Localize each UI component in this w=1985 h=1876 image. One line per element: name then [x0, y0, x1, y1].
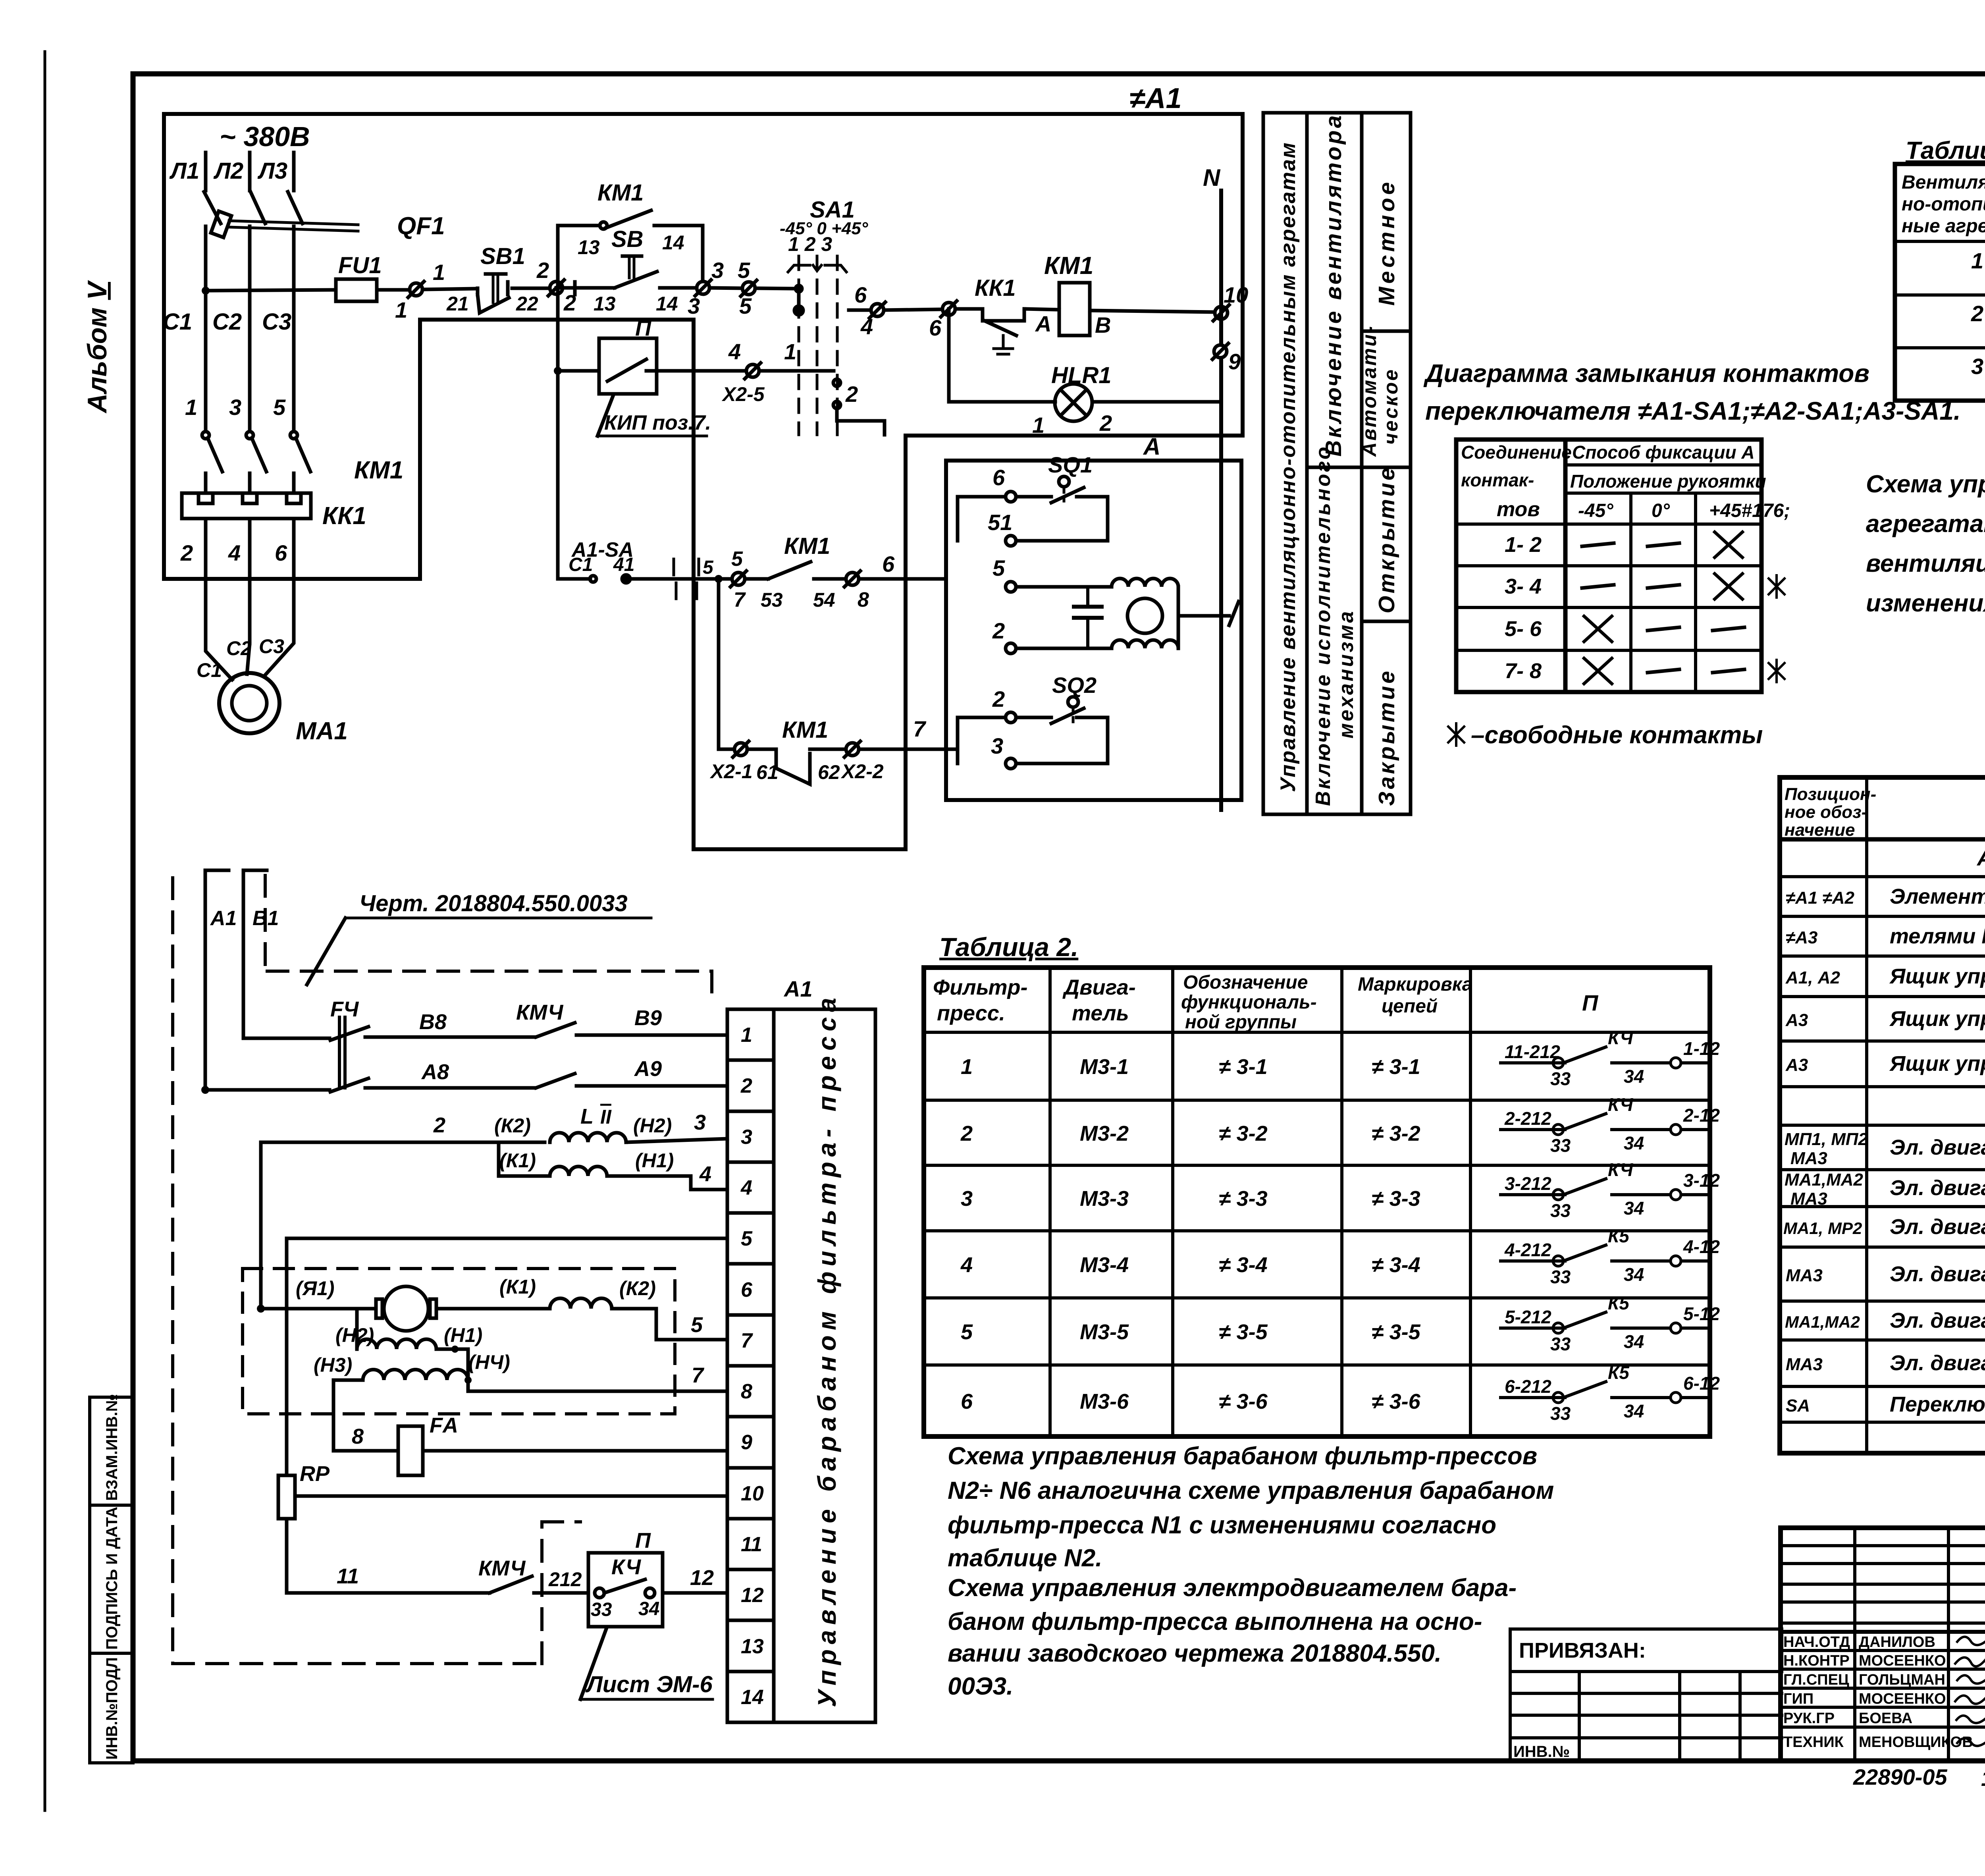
svg-text:34: 34: [1624, 1133, 1644, 1153]
wire phase Л1: [204, 152, 208, 191]
svg-text:А3: А3: [1785, 1010, 1808, 1030]
svg-text:7: 7: [741, 1329, 753, 1352]
svg-text:А1: А1: [210, 907, 237, 930]
capacitor: [1086, 587, 1089, 607]
svg-text:≠ 3-2: ≠ 3-2: [1372, 1122, 1420, 1145]
svg-text:4: 4: [228, 540, 241, 565]
lower cabinet dashed boundary: [173, 875, 712, 1664]
wire B1 feed: [243, 870, 279, 1038]
svg-text:Таблица 1.: Таблица 1.: [1906, 137, 1985, 164]
connector point 2: [536, 258, 576, 315]
svg-text:Лист ЭМ-6: Лист ЭМ-6: [585, 1672, 713, 1697]
svg-text:Открытие: Открытие: [1374, 465, 1399, 613]
svg-text:3: 3: [1971, 354, 1983, 379]
svg-text:ТЕХНИК: ТЕХНИК: [1783, 1734, 1844, 1751]
wire A8 line: [201, 1060, 535, 1094]
thermal contact KK1: [975, 275, 1059, 354]
svg-text:вентиляционно-отопительным агр: вентиляционно-отопительным агрегатом А1 …: [1866, 550, 1985, 577]
wire N: [1203, 164, 1221, 810]
title block: [1781, 1528, 1985, 1761]
svg-text:КМ1: КМ1: [597, 180, 644, 206]
svg-text:телями МА1, МА2, МА3.: телями МА1, МА2, МА3.: [1890, 924, 1985, 948]
svg-text:7- 8: 7- 8: [1505, 659, 1542, 683]
thermal relay KK1 heaters: [180, 493, 366, 619]
parts rows: [1783, 845, 1985, 1416]
svg-text:≠А1: ≠А1: [1129, 83, 1182, 114]
svg-text:QF1: QF1: [397, 212, 445, 240]
contact diagram title: [1423, 359, 1961, 425]
svg-text:33: 33: [591, 1599, 612, 1620]
svg-text:5: 5: [961, 1320, 973, 1344]
contact KM4 on B line: [516, 1001, 727, 1037]
svg-text:Х2-1: Х2-1: [709, 760, 753, 783]
svg-text:≠ 3-1: ≠ 3-1: [1372, 1055, 1420, 1079]
svg-text:4: 4: [740, 1176, 752, 1199]
svg-text:3-12: 3-12: [1683, 1170, 1720, 1191]
connector X2-1: [709, 741, 776, 783]
svg-text:00Э3.: 00Э3.: [948, 1673, 1013, 1700]
contact diagram table: [1456, 440, 1761, 692]
svg-text:КМ1: КМ1: [784, 533, 830, 559]
vertical function table: [1263, 113, 1411, 814]
svg-text:Ящик управления Я5111-2474 УХЛ: Ящик управления Я5111-2474 УХЛ Ч: [1889, 964, 1985, 988]
svg-text:(Н2): (Н2): [335, 1324, 374, 1346]
svg-text:3: 3: [741, 1126, 752, 1149]
svg-text:М3-1: М3-1: [1080, 1055, 1129, 1079]
svg-text:5- 6: 5- 6: [1505, 617, 1542, 641]
svg-text:5-12: 5-12: [1683, 1303, 1720, 1324]
table 1: [1895, 137, 1985, 401]
svg-text:22: 22: [516, 293, 538, 315]
svg-text:12: 12: [1981, 1766, 1985, 1791]
svg-text:11: 11: [741, 1533, 762, 1556]
KIP position note: [597, 395, 711, 436]
svg-text:Автомати-: Автомати-: [1358, 325, 1380, 457]
drawing reference note: [307, 891, 651, 985]
svg-text:А8: А8: [421, 1060, 449, 1084]
circuit breaker QF1: [204, 192, 445, 431]
svg-text:5-212: 5-212: [1505, 1307, 1551, 1327]
svg-text:6: 6: [961, 1390, 973, 1413]
svg-text:13: 13: [741, 1635, 764, 1658]
free contacts note: [1448, 721, 1763, 749]
svg-text:0°: 0°: [1652, 500, 1670, 521]
svg-text:Х2-5: Х2-5: [721, 383, 765, 405]
svg-text:≠ 3-5: ≠ 3-5: [1219, 1320, 1268, 1344]
svg-text:КМЧ: КМЧ: [516, 1001, 564, 1024]
svg-text:4-12: 4-12: [1683, 1236, 1720, 1257]
drum motor armature: [257, 1276, 727, 1340]
svg-text:8: 8: [858, 588, 869, 611]
svg-text:14: 14: [741, 1686, 764, 1709]
inductor K1-H1 (to terminal 4): [499, 1142, 727, 1190]
svg-text:N: N: [1203, 164, 1221, 191]
svg-text:≠А3: ≠А3: [1786, 928, 1817, 947]
svg-text:пресс.: пресс.: [937, 1001, 1005, 1025]
svg-text:1: 1: [784, 339, 796, 364]
svg-text:функциональ-: функциональ-: [1181, 992, 1317, 1013]
svg-text:КЧ: КЧ: [1608, 1094, 1634, 1115]
svg-text:М3-5: М3-5: [1080, 1320, 1129, 1344]
svg-text:ные агрегаты: ные агрегаты: [1902, 216, 1985, 237]
svg-text:Ящик управления Я5111-2274 УХ: Ящик управления Я5111-2274 УХЛ Ч: [1889, 1007, 1985, 1031]
svg-text:2: 2: [845, 382, 858, 407]
svg-text:С3: С3: [262, 309, 291, 335]
signatures squiggles: [1955, 1636, 1985, 1746]
svg-text:переключателя ≠А1-SА1;≠А2-SА1;: переключателя ≠А1-SА1;≠А2-SА1;А3-SА1.: [1425, 397, 1961, 425]
table2 row 1: [961, 1028, 1720, 1089]
svg-text:КЧ: КЧ: [1608, 1028, 1634, 1048]
svg-text:Позицион-: Позицион-: [1785, 785, 1876, 804]
svg-text:П: П: [635, 315, 652, 340]
page left trim line: [44, 52, 46, 1810]
svg-text:33: 33: [1550, 1403, 1571, 1424]
svg-text:вании заводского чертежа 20188: вании заводского чертежа 2018804.550.: [948, 1640, 1442, 1667]
actuator box A: [946, 461, 1241, 800]
table2 row 5: [961, 1293, 1720, 1354]
svg-text:33: 33: [1550, 1068, 1571, 1089]
fuse F4: [330, 997, 359, 1088]
contact KM1 53-54: [745, 533, 846, 611]
terminal block A1: [727, 976, 813, 1722]
svg-text:КЧ: КЧ: [1608, 1159, 1634, 1180]
wire 5 long line (terminal 5): [289, 1237, 727, 1240]
svg-text:МА1,МА2: МА1,МА2: [1785, 1313, 1860, 1331]
svg-text:212: 212: [548, 1568, 582, 1591]
svg-text:≠ 3-3: ≠ 3-3: [1372, 1187, 1420, 1211]
svg-text:2: 2: [536, 258, 549, 283]
svg-text:6-12: 6-12: [1683, 1373, 1720, 1394]
svg-text:5: 5: [731, 548, 743, 571]
svg-text:33: 33: [1550, 1135, 1571, 1156]
svg-text:N2÷ N6 аналогична схеме управл: N2÷ N6 аналогична схеме управления бараб…: [948, 1477, 1554, 1504]
svg-text:МП1, МП2: МП1, МП2: [1785, 1130, 1868, 1149]
svg-text:Диаграмма замыкания контактов: Диаграмма замыкания контактов: [1423, 359, 1869, 388]
svg-text:К5: К5: [1608, 1362, 1630, 1383]
resistor RP: [278, 1238, 727, 1593]
svg-text:SВ: SВ: [611, 226, 644, 252]
svg-text:RР: RР: [300, 1462, 330, 1486]
svg-text:А: А: [1035, 311, 1051, 336]
device P (KIP): [554, 288, 834, 579]
svg-text:С1: С1: [163, 309, 192, 335]
svg-text:С2: С2: [212, 309, 242, 335]
svg-text:(К1): (К1): [499, 1149, 536, 1172]
svg-text:Эл. двигатель ЧАХ 71А2 ; 0,7: Эл. двигатель ЧАХ 71А2 ; 0,75 кВт.: [1890, 1215, 1985, 1239]
svg-text:МА3: МА3: [1786, 1266, 1823, 1285]
table2 row 6: [961, 1362, 1720, 1424]
signal lamp HLR1: [949, 309, 1221, 438]
svg-text:Черт. 2018804.550.0033: Черт. 2018804.550.0033: [359, 891, 628, 916]
svg-text:12: 12: [690, 1566, 714, 1590]
svg-text:SВ1: SВ1: [480, 243, 525, 269]
svg-text:Вентиляцион-: Вентиляцион-: [1902, 172, 1985, 193]
svg-text:≠ 3-2: ≠ 3-2: [1219, 1122, 1268, 1145]
contact KM4 on A line: [536, 1057, 727, 1088]
svg-text:2: 2: [433, 1113, 445, 1137]
svg-text:Схема управления вентиляционно: Схема управления вентиляционно-отопитель…: [1866, 470, 1985, 498]
svg-text:3-212: 3-212: [1505, 1173, 1551, 1194]
svg-text:12: 12: [741, 1584, 764, 1607]
svg-text:А1, А2: А1, А2: [1785, 968, 1840, 987]
svg-text:34: 34: [1624, 1331, 1644, 1352]
svg-text:3: 3: [961, 1187, 973, 1211]
wire 11 and contact KM4: [287, 1556, 588, 1593]
svg-text:В8: В8: [419, 1010, 447, 1034]
svg-text:1-12: 1-12: [1683, 1038, 1720, 1059]
svg-text:1- 2: 1- 2: [1505, 533, 1542, 557]
svg-text:7: 7: [734, 588, 746, 611]
svg-text:14: 14: [656, 293, 678, 315]
svg-text:6: 6: [854, 282, 867, 307]
svg-text:Схема управления барабаном фил: Схема управления барабаном фильтр-прессо…: [948, 1442, 1537, 1470]
svg-text:Эл. двигатель ЧАА 63ВЧ; 0.37: Эл. двигатель ЧАА 63ВЧ; 0.37 кВт.: [1890, 1351, 1985, 1375]
svg-text:4: 4: [728, 339, 741, 364]
svg-text:ческое: ческое: [1380, 368, 1402, 445]
svg-text:4-212: 4-212: [1504, 1240, 1551, 1260]
svg-text:–свободные контакты: –свободные контакты: [1471, 721, 1763, 749]
svg-text:Схема управления электродвигат: Схема управления электродвигателем бара-: [948, 1574, 1517, 1602]
svg-text:2: 2: [180, 540, 193, 565]
svg-text:МЕНОВЩИКОВ: МЕНОВЩИКОВ: [1859, 1734, 1973, 1751]
motor MA1: [197, 619, 348, 745]
svg-text:14: 14: [662, 231, 684, 254]
svg-text:2: 2: [1099, 411, 1112, 436]
svg-text:Соединение: Соединение: [1461, 442, 1572, 463]
svg-text:А9: А9: [634, 1057, 662, 1081]
svg-text:баном фильтр-пресса выполнена: баном фильтр-пресса выполнена на осно-: [948, 1608, 1482, 1635]
svg-text:4: 4: [960, 1253, 973, 1277]
svg-text:НАЧ.ОТД: НАЧ.ОТД: [1783, 1634, 1850, 1650]
SA1 position 3 contact to lamp: [833, 379, 885, 435]
svg-text:8: 8: [741, 1380, 752, 1403]
svg-text:FА: FА: [430, 1413, 458, 1437]
svg-text:В: В: [1095, 312, 1111, 337]
svg-text:М3-6: М3-6: [1080, 1390, 1129, 1413]
svg-text:начение: начение: [1785, 820, 1855, 840]
svg-text:ное обоз-: ное обоз-: [1785, 802, 1867, 822]
svg-text:БОЕВА: БОЕВА: [1859, 1710, 1912, 1727]
svg-text:ной группы: ной группы: [1185, 1012, 1297, 1033]
svg-text:13: 13: [578, 236, 600, 258]
stop button SB1: [446, 243, 575, 315]
svg-text:ПРИВЯЗАН:: ПРИВЯЗАН:: [1519, 1639, 1646, 1662]
svg-text:SQ2: SQ2: [1052, 673, 1097, 698]
svg-text:А1: А1: [783, 976, 813, 1001]
svg-text:Двига-: Двига-: [1062, 976, 1136, 999]
svg-text:7: 7: [692, 1363, 705, 1387]
svg-text:Эл. двигатель ЧАХ 71 ВЧ; 0. 7: Эл. двигатель ЧАХ 71 ВЧ; 0. 75 кВт.: [1890, 1176, 1985, 1200]
svg-text:11: 11: [337, 1564, 359, 1588]
svg-text:ГЛ.СПЕЦ: ГЛ.СПЕЦ: [1783, 1672, 1849, 1688]
svg-text:В1: В1: [252, 907, 279, 930]
svg-text:8: 8: [352, 1425, 364, 1448]
svg-text:9: 9: [741, 1431, 752, 1454]
svg-text:5: 5: [273, 395, 286, 420]
svg-text:≠ 3-5: ≠ 3-5: [1372, 1320, 1421, 1344]
contactor KM1 main contacts: [185, 395, 403, 493]
connector point 3: [688, 258, 742, 318]
contactor coil KM1: [1044, 252, 1215, 337]
svg-text:22890-05: 22890-05: [1853, 1764, 1948, 1789]
privyazan box: [1510, 1629, 1782, 1761]
svg-text:Маркировка: Маркировка: [1358, 974, 1472, 995]
svg-text:4: 4: [699, 1162, 711, 1186]
svg-text:К5: К5: [1608, 1226, 1630, 1246]
svg-text:МОСЕЕНКО: МОСЕЕНКО: [1859, 1652, 1946, 1669]
svg-text:Включение вентилятора: Включение вентилятора: [1321, 113, 1346, 457]
wire to X2 line: [715, 575, 734, 749]
svg-text:(Н1): (Н1): [444, 1324, 482, 1346]
svg-text:≠А1 ≠А2: ≠А1 ≠А2: [1786, 888, 1855, 908]
connector 8: [844, 551, 946, 611]
svg-text:С1: С1: [197, 659, 222, 681]
svg-text:изменениями согласно таблице: изменениями согласно таблице 1.: [1866, 590, 1985, 617]
svg-text:1: 1: [1032, 413, 1045, 438]
svg-text:Закрытие: Закрытие: [1374, 669, 1399, 806]
svg-text:Л1: Л1: [169, 158, 199, 184]
svg-text:МА1: МА1: [296, 717, 348, 745]
svg-text:≠ 3-1: ≠ 3-1: [1219, 1055, 1268, 1079]
svg-text:ГИП: ГИП: [1783, 1691, 1813, 1707]
svg-text:2: 2: [563, 290, 576, 315]
svg-text:≠ 3-6: ≠ 3-6: [1372, 1390, 1421, 1413]
svg-text:1: 1: [1971, 248, 1983, 273]
svg-text:6: 6: [275, 540, 287, 565]
svg-text:1 2 3: 1 2 3: [788, 233, 832, 255]
svg-text:С3: С3: [259, 635, 284, 657]
cabinet A1 outline (stepped box): [164, 114, 1243, 849]
svg-text:Эл. двигатель ЧАХ 71ВЧ; 0,75: Эл. двигатель ЧАХ 71ВЧ; 0,75 кВт.: [1890, 1309, 1985, 1332]
svg-text:Переключатель ПВ2-10/Н2.: Переключатель ПВ2-10/Н2.: [1890, 1392, 1985, 1416]
svg-text:2-212: 2-212: [1504, 1108, 1551, 1129]
inductor L II line (wire 2 to terminal 3): [261, 1105, 727, 1309]
svg-text:34: 34: [1624, 1401, 1644, 1421]
svg-text:5: 5: [739, 293, 752, 318]
svg-text:≠ 3-4: ≠ 3-4: [1372, 1253, 1420, 1277]
svg-text:МА3: МА3: [1786, 1355, 1823, 1374]
fuse FA: [333, 1380, 727, 1475]
svg-text:+45+45°#176;: +45+45°#176;: [1709, 500, 1790, 521]
connector point 10 on N: [1213, 282, 1248, 321]
svg-text:МА3: МА3: [1790, 1189, 1827, 1209]
svg-text:≠ 3-3: ≠ 3-3: [1219, 1187, 1268, 1211]
svg-text:1: 1: [433, 260, 445, 285]
svg-text:МА1,МА2: МА1,МА2: [1785, 1170, 1864, 1190]
svg-text:3- 4: 3- 4: [1505, 575, 1542, 598]
switch A1-SA line: [558, 538, 732, 599]
svg-text:А: А: [1143, 433, 1160, 460]
svg-text:КК1: КК1: [975, 275, 1016, 301]
field winding H2-H1: [335, 1309, 482, 1391]
KM1 holding branch: [558, 180, 703, 288]
svg-text:Включение исполнительного: Включение исполнительного: [1312, 445, 1335, 806]
svg-text:5: 5: [738, 258, 750, 283]
svg-text:53: 53: [761, 589, 783, 611]
svg-text:НLR1: НLR1: [1051, 362, 1111, 388]
svg-text:(К1): (К1): [499, 1276, 536, 1298]
svg-text:6: 6: [992, 465, 1005, 490]
svg-text:ГОЛЬЦМАН: ГОЛЬЦМАН: [1859, 1672, 1945, 1688]
svg-text:~ 380В: ~ 380В: [220, 121, 310, 152]
svg-text:Н.КОНТР: Н.КОНТР: [1783, 1652, 1850, 1669]
svg-text:2: 2: [992, 686, 1005, 711]
svg-text:КИП поз.7.: КИП поз.7.: [604, 411, 711, 434]
svg-text:5: 5: [691, 1313, 703, 1337]
svg-text:фильтр-пресса N1 с изменениями: фильтр-пресса N1 с изменениями согласно: [948, 1512, 1496, 1539]
note about A2 A3: [1866, 470, 1985, 617]
svg-text:62: 62: [818, 761, 840, 783]
svg-text:тель: тель: [1072, 1001, 1129, 1025]
svg-text:Способ фиксации А: Способ фиксации А: [1572, 442, 1755, 463]
drum scheme notes: [948, 1442, 1554, 1700]
svg-text:41: 41: [613, 554, 634, 575]
svg-text:Л2: Л2: [213, 158, 243, 184]
svg-text:КМ1: КМ1: [782, 717, 828, 743]
wire phase Л3: [292, 152, 296, 191]
svg-text:2: 2: [1971, 301, 1983, 326]
svg-text:-45°: -45°: [1578, 500, 1613, 521]
svg-text:1: 1: [185, 395, 197, 420]
sheet reference EM-6: [580, 1628, 713, 1699]
selector switch SA1: [780, 197, 868, 435]
svg-text:КЧ: КЧ: [611, 1555, 642, 1579]
svg-text:11-212: 11-212: [1505, 1041, 1560, 1062]
svg-text:(Н1): (Н1): [635, 1149, 674, 1172]
svg-text:ИНВ.№ПОДЛ: ИНВ.№ПОДЛ: [103, 1657, 121, 1760]
drum control label box: [774, 993, 875, 1722]
svg-text:34: 34: [1624, 1066, 1644, 1087]
svg-text:1: 1: [961, 1055, 973, 1079]
svg-text:П: П: [635, 1529, 651, 1552]
svg-text:С1: С1: [569, 554, 593, 575]
svg-text:33: 33: [1550, 1334, 1571, 1354]
svg-text:2: 2: [740, 1074, 752, 1097]
svg-text:П: П: [1582, 990, 1599, 1015]
svg-text:II: II: [600, 1106, 612, 1128]
svg-text:Таблица 2.: Таблица 2.: [939, 932, 1078, 962]
svg-text:цепей: цепей: [1382, 996, 1438, 1017]
svg-text:ВЗАМ.ИНВ.№: ВЗАМ.ИНВ.№: [103, 1394, 121, 1501]
svg-text:6-212: 6-212: [1505, 1376, 1551, 1397]
svg-text:21: 21: [446, 293, 469, 315]
svg-text:Местное: Местное: [1374, 179, 1399, 306]
connector X2-2: [840, 716, 946, 783]
svg-text:Х2-2: Х2-2: [840, 760, 884, 783]
dashed motor enclosure: [243, 1269, 675, 1414]
svg-text:L: L: [580, 1105, 594, 1128]
svg-text:5: 5: [703, 557, 714, 578]
svg-text:1: 1: [741, 1024, 752, 1047]
svg-text:агрегатами А2, А3 аналогично с: агрегатами А2, А3 аналогично схеме управ…: [1866, 510, 1985, 538]
svg-text:ИНВ.№: ИНВ.№: [1513, 1743, 1570, 1760]
svg-text:КМЧ: КМЧ: [478, 1556, 526, 1580]
svg-text:(К2): (К2): [494, 1114, 531, 1137]
svg-text:(Н2): (Н2): [633, 1114, 672, 1137]
svg-text:Положение рукоятки: Положение рукоятки: [1570, 471, 1766, 492]
wire phase Л2: [248, 152, 252, 191]
svg-text:2-12: 2-12: [1683, 1105, 1720, 1126]
svg-text:(Н3): (Н3): [314, 1354, 352, 1376]
wire A1 feed: [205, 870, 237, 1090]
svg-text:34: 34: [1624, 1198, 1644, 1219]
svg-text:Альбом V: Альбом V: [82, 280, 112, 414]
svg-text:К5: К5: [1608, 1293, 1630, 1313]
svg-text:61: 61: [756, 761, 779, 783]
bottom notes: [1853, 1764, 1985, 1818]
limit switch SQ2: [946, 673, 1108, 769]
svg-text:5: 5: [741, 1227, 753, 1250]
